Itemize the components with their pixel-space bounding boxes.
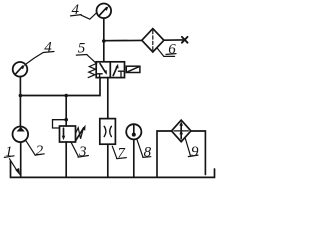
- wire pump 2 suction to tank: [20, 142, 22, 176]
- label 2: [26, 140, 45, 159]
- wire node A to valve 5 top port: [103, 41, 105, 62]
- svg-text:4: 4: [44, 39, 52, 55]
- node D pilot junction: [64, 118, 68, 122]
- svg-text:6: 6: [168, 42, 176, 58]
- orifice 7 body: [100, 119, 116, 145]
- heater 9 diamond: [172, 120, 191, 142]
- wire filter 6 to plug: [164, 39, 183, 41]
- svg-text:1: 1: [5, 144, 13, 160]
- valve 5 right position blocked port T: [118, 71, 123, 77]
- wire tank to heater 9 (left leg): [157, 131, 172, 176]
- svg-text:8: 8: [144, 145, 152, 161]
- thermometer 8: [126, 124, 141, 139]
- relief valve 3 adjust arrow: [76, 125, 86, 141]
- pilot line of relief valve 3: [53, 120, 67, 128]
- label 9: [185, 138, 199, 160]
- label 6: [157, 42, 176, 58]
- wire thermometer 8 to tank: [133, 139, 135, 177]
- tank 1: [11, 161, 215, 177]
- relief valve 3 flow arrow: [62, 128, 65, 140]
- filter 6 diamond: [142, 29, 164, 52]
- spring actuator of valve 5: [88, 64, 96, 78]
- svg-text:3: 3: [78, 144, 87, 160]
- relief valve 3 spring: [76, 128, 84, 139]
- wire heater 9 to tank (right leg): [191, 131, 206, 175]
- node C junction on bus: [64, 94, 68, 98]
- orifice 7 arcs: [104, 126, 111, 136]
- node B junction: [19, 94, 23, 98]
- valve 5 left position flow arrow: [100, 64, 107, 75]
- relief valve 3 body: [60, 126, 76, 142]
- label 1: [4, 144, 20, 175]
- label 8: [137, 140, 152, 161]
- wire pressure bus node B to valve 5: [20, 78, 100, 96]
- wire node C down to relief valve 3: [65, 96, 67, 127]
- plugged port X: [182, 37, 188, 43]
- wire orifice 7 to tank: [107, 144, 109, 177]
- label 4 top: [71, 2, 97, 19]
- pump 2: [12, 127, 28, 143]
- wire valve 5 to orifice 7: [107, 78, 109, 119]
- gauge 4 (left): [13, 62, 28, 77]
- wire gauge4left to node B: [19, 77, 21, 96]
- node A junction: [102, 39, 106, 43]
- wire node A to filter 6: [104, 39, 142, 41]
- label 7: [112, 145, 126, 161]
- wire relief valve 3 to tank: [65, 142, 67, 177]
- svg-text:2: 2: [36, 143, 44, 159]
- label 3: [71, 142, 88, 160]
- valve 5 right position flow arrow: [113, 64, 118, 76]
- label 5: [76, 41, 97, 64]
- label 4 left: [27, 39, 55, 63]
- valve 5 left position blocked port T: [97, 74, 102, 78]
- gauge 4 (top): [97, 4, 112, 19]
- svg-text:9: 9: [191, 144, 199, 160]
- wire node B to pump 2: [19, 96, 21, 127]
- wire gauge4top to node A: [103, 18, 105, 41]
- valve 5 body: [96, 62, 124, 78]
- solenoid actuator of valve 5: [126, 66, 140, 72]
